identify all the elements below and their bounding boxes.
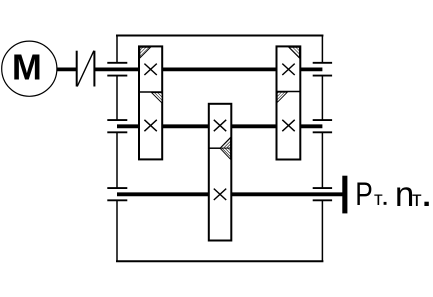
svg-text:M: M — [12, 47, 42, 88]
svg-text:P: P — [355, 176, 373, 212]
svg-text:т: т — [412, 188, 422, 211]
svg-text:т: т — [374, 189, 383, 210]
